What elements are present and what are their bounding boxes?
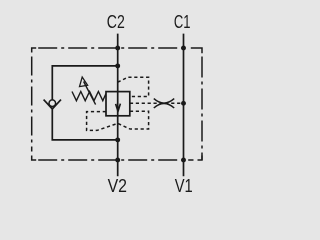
svg-text:C2: C2 (107, 11, 125, 32)
node: V2 port junction at frame (115, 158, 120, 163)
boundary enclosure left side (31, 57, 33, 152)
node: pilot junction on V1 line (181, 101, 186, 106)
boundary enclosure right side (201, 57, 203, 161)
spring (adjustable) (72, 92, 106, 101)
node: C1 port junction at frame (181, 46, 186, 51)
svg-text:C1: C1 (174, 11, 191, 32)
check valve ball (49, 100, 56, 107)
node: V1 port junction at frame (181, 158, 186, 163)
wire: check valve loop upper branch (52, 66, 117, 100)
wire: C1-V1 main vertical line (183, 34, 185, 177)
boundary corner top-left (32, 48, 37, 53)
adjustment arrow head (80, 77, 88, 87)
check valve seat (44, 100, 61, 109)
valve body U1 (main poppet envelope) (106, 92, 130, 116)
boundary corner top-right (191, 48, 202, 53)
node: loop bottom junction (115, 137, 120, 142)
node: loop top junction (115, 63, 120, 68)
wire: check valve loop lower branch (52, 109, 117, 140)
svg-text:V1: V1 (175, 175, 193, 196)
wire: C2-V2 main vertical line (117, 34, 119, 177)
boundary enclosure (dash-dot frame) top side (38, 47, 186, 49)
node: C2 port junction at frame (115, 46, 120, 51)
boundary corner bottom-left (32, 156, 37, 161)
pilot chamber upper-right (dashed) (118, 77, 149, 96)
adjustment arrow shaft (84, 82, 96, 105)
boundary enclosure bottom side (38, 159, 193, 161)
svg-text:V2: V2 (108, 175, 127, 196)
pilot chamber lower-left (dashed) (87, 112, 118, 131)
boundary corner bottom-right (198, 156, 203, 161)
orifice (fixed restrictor) (154, 99, 174, 104)
flow direction arrowhead inside valve body (116, 104, 121, 112)
pilot chamber lower-right (dashed) (118, 111, 149, 129)
pilot line to V1 (dashed) (130, 102, 184, 104)
